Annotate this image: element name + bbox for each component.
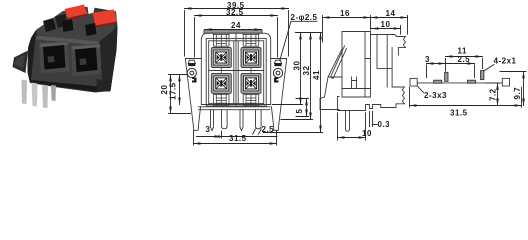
side dim 10 bottom bbox=[338, 113, 366, 140]
dim 31.5 bottom bbox=[194, 131, 277, 145]
dim 32.5 bbox=[195, 18, 278, 58]
photo front face bbox=[31, 40, 103, 88]
photo bottom strip bbox=[30, 80, 110, 92]
svg-text:2.5: 2.5 bbox=[262, 125, 275, 134]
svg-text:4-2x1: 4-2x1 bbox=[494, 57, 517, 66]
svg-text:14: 14 bbox=[386, 9, 396, 18]
bottom dim 3 bbox=[427, 65, 475, 78]
svg-text:10: 10 bbox=[362, 129, 372, 138]
photo front port 1 frame bbox=[39, 41, 70, 74]
photo black button pair bbox=[43, 18, 56, 32]
dim 30/32/41 right bbox=[296, 32, 322, 34]
side view back lower contact bbox=[381, 87, 405, 108]
dim 5 right bbox=[306, 99, 308, 117]
front view center divider lines bbox=[234, 41, 238, 104]
svg-text:9.7: 9.7 bbox=[513, 87, 522, 100]
photo top-face hole 1 bbox=[62, 19, 74, 32]
side view main box bbox=[342, 32, 371, 98]
side view inner slot lines bbox=[352, 77, 357, 89]
side view inner wall bbox=[365, 32, 371, 98]
svg-text:31.5: 31.5 bbox=[229, 134, 247, 143]
svg-text:2.5: 2.5 bbox=[458, 55, 471, 64]
front view terminal square TL bbox=[211, 48, 231, 68]
svg-text:31.5: 31.5 bbox=[450, 109, 468, 118]
bottom dim 9.7 bbox=[523, 72, 525, 106]
dim 3 / 2.5 line bbox=[197, 131, 278, 138]
bottom dim 7.2 bbox=[497, 83, 499, 106]
leader 2-3x3 bbox=[418, 86, 424, 92]
svg-text:30: 30 bbox=[293, 61, 302, 71]
front view lid (top strip) bbox=[204, 30, 262, 33]
front view clamp symbol left bbox=[188, 60, 195, 66]
front view dimensions bbox=[169, 9, 323, 146]
svg-text:3: 3 bbox=[206, 125, 211, 134]
front view key mark right bbox=[274, 78, 279, 83]
side dim 16 and 14 bbox=[323, 16, 408, 43]
bottom dim 11 bbox=[446, 59, 483, 72]
front view outer shell bbox=[201, 33, 270, 104]
front view pins bbox=[211, 110, 262, 131]
svg-text:32: 32 bbox=[302, 66, 311, 76]
bottom dim 2.5 bbox=[446, 63, 475, 65]
dim 39.5 bbox=[185, 11, 289, 57]
svg-text:7.2: 7.2 bbox=[489, 88, 498, 101]
svg-text:3: 3 bbox=[425, 55, 430, 64]
front view button-lid connectors bbox=[214, 33, 259, 34]
svg-text:17.5: 17.5 bbox=[169, 82, 178, 100]
photo front port 1 hole bbox=[43, 45, 66, 70]
side view button slot (sloped front) bbox=[325, 49, 343, 97]
photo red button 2 bbox=[93, 10, 118, 26]
photo mounting spike left bbox=[13, 51, 29, 74]
photo front port 2 hole bbox=[75, 48, 98, 73]
bottom view pad v2 bbox=[481, 71, 484, 80]
svg-text:2-3x3: 2-3x3 bbox=[424, 91, 447, 100]
leader 2-phi2.5 bbox=[280, 21, 317, 60]
front view mounting hole right bbox=[273, 68, 282, 77]
side view pin bbox=[346, 111, 350, 132]
front view bottom shell lines bbox=[198, 107, 269, 110]
photo top-face hole 2 bbox=[85, 23, 97, 36]
front view terminal buttons (striped) bbox=[214, 35, 259, 106]
bottom view base line bbox=[417, 82, 502, 84]
photo pin 3 bbox=[42, 85, 48, 109]
photo pin 2 bbox=[32, 83, 38, 107]
svg-text:5: 5 bbox=[295, 109, 304, 114]
bottom view pad h2 bbox=[468, 80, 476, 83]
front view terminal square BL bbox=[211, 73, 231, 93]
photo front port 2 frame bbox=[71, 44, 102, 77]
side dim 0.3 bbox=[370, 112, 378, 127]
side view back wall lines bbox=[377, 35, 392, 88]
front view middle horizontal line bbox=[209, 70, 264, 72]
svg-text:32.5: 32.5 bbox=[226, 8, 244, 17]
photo top face bbox=[36, 11, 116, 42]
front view left wing bbox=[185, 59, 201, 131]
photo pin 4 bbox=[51, 85, 56, 101]
svg-text:41: 41 bbox=[312, 70, 321, 80]
photo body silhouette bbox=[13, 1, 118, 108]
side dim 10 top bbox=[400, 26, 402, 35]
front view terminal square TR bbox=[241, 48, 261, 68]
side view front flange bbox=[320, 97, 339, 110]
photo red button 1 bbox=[65, 5, 88, 19]
front view center vertical line bbox=[235, 33, 237, 107]
svg-text:2-φ2.5: 2-φ2.5 bbox=[291, 13, 318, 22]
svg-text:24: 24 bbox=[231, 21, 241, 30]
side view internal shelf bbox=[342, 88, 371, 90]
photo front ridge bbox=[36, 36, 99, 46]
front view inner frame bbox=[209, 41, 264, 104]
bottom view pad h1 bbox=[434, 80, 442, 83]
front view clamp symbol right bbox=[274, 60, 281, 66]
svg-text:16: 16 bbox=[340, 9, 350, 18]
front view key mark left bbox=[192, 78, 197, 83]
front view terminal center lines bbox=[221, 35, 251, 106]
dim 20 left bbox=[170, 75, 172, 114]
photo pin 1 bbox=[22, 80, 28, 105]
dim 24 bbox=[205, 29, 262, 31]
bottom view pad v1 bbox=[445, 72, 448, 81]
front view terminal square BR bbox=[241, 73, 261, 93]
svg-text:0.3: 0.3 bbox=[378, 120, 391, 129]
bottom dim 31.5 bbox=[410, 88, 522, 108]
leader 4-2x1 bbox=[484, 65, 494, 72]
side view back upper contact bbox=[371, 35, 406, 56]
bottom view slot right bbox=[502, 78, 509, 86]
photo notch between buttons bbox=[87, 1, 97, 14]
side view base bbox=[338, 97, 381, 111]
photo right face bbox=[99, 27, 118, 91]
photo bottom-right foot bbox=[97, 79, 112, 92]
front view mounting hole left bbox=[187, 68, 196, 77]
front view right wing bbox=[271, 59, 287, 131]
svg-text:10: 10 bbox=[381, 20, 391, 29]
photo left face bbox=[28, 30, 37, 83]
dim 17.5 left bbox=[179, 75, 181, 105]
bottom view slot left bbox=[410, 78, 417, 86]
